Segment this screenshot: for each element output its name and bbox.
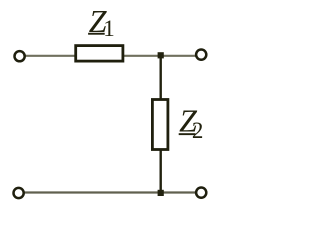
wire: vertical junction to Z2 box <box>159 55 161 100</box>
terminal: top-right <box>196 50 206 60</box>
wire: top-left terminal to Z1 box <box>25 55 76 57</box>
wire: bottom rail <box>24 191 196 193</box>
node: top junction dot <box>158 52 164 58</box>
terminal: bottom-right <box>196 188 206 198</box>
impedance Z2 (shunt box) <box>152 100 168 150</box>
node: bottom junction dot <box>158 190 164 196</box>
terminal: top-left <box>15 51 25 61</box>
label Z1 underline <box>88 33 105 35</box>
impedance Z1 (series box) <box>76 46 123 62</box>
svg-text:2: 2 <box>192 118 204 143</box>
wire: top junction to top-right terminal <box>160 55 196 57</box>
wire: Z2 box to bottom junction <box>159 150 161 193</box>
wire: Z1 box to top junction <box>123 55 160 57</box>
svg-text:1: 1 <box>103 16 115 41</box>
label Z2 underline <box>179 133 196 135</box>
terminal: bottom-left <box>14 188 24 198</box>
